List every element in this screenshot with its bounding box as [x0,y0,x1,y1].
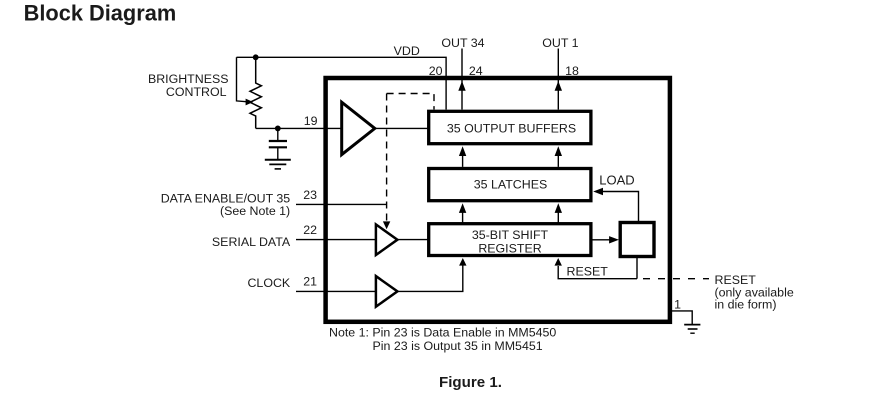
clock arrowhead into shift register [459,258,466,266]
wire shift register to latches (right) [557,207,559,224]
svg-text:OUT 1: OUT 1 [542,36,578,50]
wire pin 23 [296,203,387,205]
block 35-BIT SHIFT REGISTER [429,224,591,256]
svg-text:Pin 23 is Output 35 in MM5451: Pin 23 is Output 35 in MM5451 [373,339,543,353]
node junction bottom (cap tap) [275,125,281,131]
wire latches to output buffers (left) [462,150,464,167]
wire OUT 34 (pin 24) [461,49,463,110]
svg-text:23: 23 [303,188,317,202]
wire pot wiper branch [237,57,247,101]
wire latches to output buffers (right) [557,150,559,167]
wire shift register to latches (left) [462,207,464,224]
RESET arrowhead into shift register [555,258,562,266]
svg-text:SERIAL DATA: SERIAL DATA [212,235,291,249]
svg-text:1: 1 [674,298,681,312]
buffer (serial data input) [376,224,398,255]
svg-text:20: 20 [429,64,443,78]
wire shift register to load box [591,239,610,241]
svg-text:21: 21 [303,274,317,288]
capacitor C [269,128,287,159]
svg-text:35 LATCHES: 35 LATCHES [474,178,547,192]
svg-text:CLOCK: CLOCK [247,276,290,290]
LOAD arrowhead into latches [593,188,603,195]
svg-text:35-BIT SHIFT: 35-BIT SHIFT [472,228,549,242]
wire OUT 1 (pin 18) [557,49,559,110]
enable arrowhead into serial buffer [383,221,390,229]
ground (below capacitor) [265,160,291,169]
block 35 OUTPUT BUFFERS [429,111,591,143]
wire pin 22 [296,239,429,241]
svg-text:22: 22 [303,223,317,237]
svg-text:Block Diagram: Block Diagram [24,1,177,26]
svg-text:35 OUTPUT BUFFERS: 35 OUTPUT BUFFERS [447,121,576,135]
svg-text:BRIGHTNESS: BRIGHTNESS [148,72,229,86]
wire RESET dashed external [643,278,709,280]
wire pin 21 / clock to shift register [296,265,463,291]
buffer amplifier (pin 19 input) [342,102,375,154]
wire LOAD [602,192,639,222]
block 35 LATCHES [429,169,591,201]
svg-text:REGISTER: REGISTER [478,241,541,255]
svg-text:(See Note 1): (See Note 1) [220,204,290,218]
dashed enable net [387,94,434,222]
wire load box down to reset line [636,257,638,279]
resistor (brightness pot) [250,57,261,128]
svg-text:Figure 1.: Figure 1. [439,374,502,391]
ground (pin 1) [684,325,700,334]
svg-text:LOAD: LOAD [599,173,634,188]
svg-text:OUT 34: OUT 34 [441,36,484,50]
buffer (clock input) [376,276,398,307]
wire RESET internal [558,266,637,279]
svg-text:in die form): in die form) [715,297,777,311]
svg-text:18: 18 [565,64,579,78]
svg-text:RESET: RESET [567,265,609,279]
wire pin 1 to ground [672,311,692,324]
svg-text:Note 1: Pin 23 is Data Enable: Note 1: Pin 23 is Data Enable in MM5450 [329,326,556,340]
node junction top (VDD / pot) [253,54,259,60]
svg-text:24: 24 [469,64,483,78]
IC boundary box [326,78,670,322]
wire pin 19 line [256,127,429,129]
svg-text:VDD: VDD [394,44,420,58]
load control box [620,223,654,257]
wire VDD top rail [237,57,447,109]
wiper arrowhead [246,99,254,106]
svg-text:19: 19 [304,114,318,128]
svg-text:CONTROL: CONTROL [166,85,227,99]
